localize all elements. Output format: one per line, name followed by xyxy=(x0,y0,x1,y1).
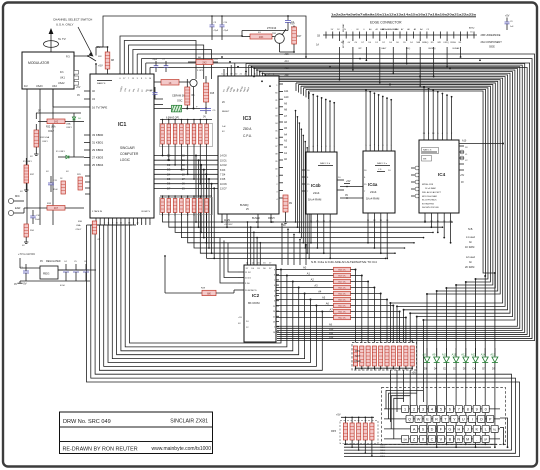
svg-text:I: I xyxy=(472,418,473,422)
svg-text:A12: A12 xyxy=(285,74,290,77)
svg-text:1B: 1B xyxy=(317,35,320,38)
svg-text:1: 1 xyxy=(100,223,101,225)
svg-text:A2: A2 xyxy=(311,278,315,282)
svg-text:26: 26 xyxy=(136,223,138,225)
A-bus verticals right of IC3 xyxy=(295,111,297,222)
svg-text:DRW No.: DRW No. xyxy=(63,419,87,425)
svg-text:13 D7: 13 D7 xyxy=(220,188,227,191)
wire bus-L7 xyxy=(117,225,299,355)
wire/node A2 xyxy=(276,281,334,283)
svg-text:R31 USA: R31 USA xyxy=(40,136,50,139)
wire bus-L1 xyxy=(91,225,516,453)
svg-text:A14: A14 xyxy=(481,353,486,357)
svg-text:25 KBD4: 25 KBD4 xyxy=(92,163,104,167)
wire/node A1 xyxy=(276,275,334,277)
svg-text:+5V: +5V xyxy=(290,22,295,26)
resistor RP2.1 xyxy=(353,346,357,366)
svg-text:11: 11 xyxy=(107,223,109,225)
capacitor C5 electrolytic xyxy=(200,108,211,110)
svg-text:9: 9 xyxy=(476,408,478,412)
key F xyxy=(437,425,444,432)
capacitor C2 xyxy=(287,16,289,21)
wire bus-R13 xyxy=(270,76,272,78)
svg-text:KBD1: KBD1 xyxy=(380,447,386,449)
IC4 RAM 4118 xyxy=(419,140,459,213)
svg-text:D6: D6 xyxy=(167,182,171,186)
svg-text:MPSH 4118: MPSH 4118 xyxy=(422,184,434,186)
svg-text:6: 6 xyxy=(449,408,451,412)
svg-text:5: 5 xyxy=(440,408,442,412)
svg-text:SRC 049: SRC 049 xyxy=(88,419,111,425)
diode D9 xyxy=(492,357,498,362)
svg-text:+5V: +5V xyxy=(98,64,103,68)
svg-text:3: 3 xyxy=(274,301,275,303)
svg-text:Z80 A: Z80 A xyxy=(243,127,252,131)
svg-text:47pF: 47pF xyxy=(224,30,229,32)
svg-text:U: U xyxy=(462,418,465,422)
svg-text:G: G xyxy=(448,428,451,432)
svg-text:2: 2 xyxy=(274,327,275,329)
resistor RP2.6 xyxy=(385,346,389,366)
extra bus junction dots xyxy=(251,66,253,68)
svg-text:LOGIC: LOGIC xyxy=(120,158,131,162)
svg-text:D8: D8 xyxy=(424,367,428,371)
svg-text:D2: D2 xyxy=(443,367,447,371)
caps C4 C5 C6 xyxy=(58,269,66,271)
diode D8 xyxy=(424,357,430,362)
svg-text:5: 5 xyxy=(274,290,275,292)
resistor RP3.2 xyxy=(351,417,353,419)
svg-text:D5: D5 xyxy=(463,367,467,371)
caps C3 C10 top xyxy=(211,16,213,25)
keyboard row/column wires xyxy=(384,408,500,410)
svg-text:+5V: +5V xyxy=(238,317,242,319)
svg-text:4: 4 xyxy=(133,223,134,225)
svg-text:N.B. IC4a & IC4b ARE AN ALTER: N.B. IC4a & IC4b ARE AN ALTERNATIVE TO I… xyxy=(311,260,377,264)
svg-text:R19 1K: R19 1K xyxy=(338,276,346,278)
svg-text:34: 34 xyxy=(128,223,130,225)
resistor pack below IC1 xyxy=(160,198,213,215)
wire bus-R21 xyxy=(308,91,310,99)
svg-text:D3: D3 xyxy=(453,367,457,371)
key X xyxy=(419,435,426,442)
resistor RP2.8 xyxy=(398,346,402,366)
svg-text:23A COMPONENT: 23A COMPONENT xyxy=(481,41,503,44)
svg-text:A7: A7 xyxy=(330,308,334,312)
svg-text:D6: D6 xyxy=(473,367,477,371)
svg-text:9 D5: 9 D5 xyxy=(220,178,226,181)
svg-text:IC2: IC2 xyxy=(252,293,260,298)
svg-text:OSC: OSC xyxy=(177,100,183,103)
key . xyxy=(473,435,480,442)
svg-text:33 KBD0: 33 KBD0 xyxy=(92,133,104,137)
svg-text:KBD2: KBD2 xyxy=(380,450,386,452)
resistor R37 xyxy=(24,165,29,183)
key SH xyxy=(402,435,409,442)
svg-text:+5V: +5V xyxy=(505,15,510,18)
svg-text:A5: A5 xyxy=(322,296,326,300)
key I xyxy=(469,415,476,422)
svg-text:R17 1K: R17 1K xyxy=(338,282,346,284)
wire data bus D2 xyxy=(154,164,218,166)
key Q xyxy=(406,415,413,422)
resistor R30 USA only xyxy=(92,221,96,234)
svg-text:F1 ONLY: F1 ONLY xyxy=(23,161,32,163)
resistor RP3.5 xyxy=(371,417,373,419)
svg-text:RAM C S b: RAM C S b xyxy=(320,162,331,165)
resistor RP1.4 xyxy=(180,120,182,125)
svg-text:N: N xyxy=(457,438,460,442)
svg-text:9 OP1: 9 OP1 xyxy=(197,70,204,72)
wire bus-R7 xyxy=(253,68,255,76)
wire address line 4 xyxy=(188,213,414,243)
svg-text:7: 7 xyxy=(274,280,275,282)
svg-text:2: 2 xyxy=(149,223,150,225)
svg-text:15 D1: 15 D1 xyxy=(220,159,227,162)
IC4b RAM 2114 xyxy=(306,152,337,214)
wire address line 3 xyxy=(181,213,423,238)
svg-text:D5: D5 xyxy=(167,177,171,181)
svg-text:RP2: RP2 xyxy=(355,350,360,353)
svg-text:F/2: F/2 xyxy=(24,85,28,88)
svg-text:+5V: +5V xyxy=(412,372,417,375)
key 7 xyxy=(455,405,462,412)
svg-text:+5V: +5V xyxy=(336,414,341,417)
key D xyxy=(428,425,435,432)
svg-text:D2: D2 xyxy=(167,163,171,167)
svg-text:MREQ: MREQ xyxy=(422,42,428,44)
wire bus-L4 xyxy=(104,225,317,366)
svg-text:30: 30 xyxy=(116,223,118,225)
svg-text:3: 3 xyxy=(422,408,424,412)
svg-text:2K RAM: 2K RAM xyxy=(465,266,474,269)
resistor R22 1K pull-up xyxy=(334,315,351,319)
wire/node A0 xyxy=(276,269,334,271)
cap C8 100uF xyxy=(153,92,158,94)
svg-text:IC1: IC1 xyxy=(118,122,126,128)
svg-text:Q: Q xyxy=(408,418,411,422)
resistor RP1.1 xyxy=(162,120,164,125)
wire address line 1 xyxy=(169,213,443,228)
svg-text:WR: WR xyxy=(423,159,427,161)
wire data bus D5 xyxy=(154,178,218,180)
resistor R8 near switch xyxy=(107,47,109,52)
key V xyxy=(437,435,444,442)
key Z xyxy=(410,435,417,442)
svg-text:A4: A4 xyxy=(318,290,322,294)
svg-text:A9: A9 xyxy=(432,353,436,357)
wire bus-L9 xyxy=(125,225,287,347)
svg-text:SHOWN CIRCLED: SHOWN CIRCLED xyxy=(422,207,440,209)
wire address line 2 xyxy=(175,213,433,233)
resistor R19 1K pull-up xyxy=(334,273,351,277)
svg-text:+5V 80V: +5V 80V xyxy=(224,224,233,226)
wire ROMCS with resistor R28 xyxy=(164,256,166,293)
IC4a RAM 2114 xyxy=(363,151,395,213)
resistor R32 xyxy=(47,119,65,124)
resistor pack RP2 not used xyxy=(352,343,417,371)
svg-text:1A: 1A xyxy=(316,44,319,47)
key N xyxy=(455,435,462,442)
key 2 xyxy=(410,405,417,412)
key P xyxy=(487,415,494,422)
svg-text:A10: A10 xyxy=(284,96,289,99)
wire bus-R2 xyxy=(145,63,147,74)
diode D6 xyxy=(473,357,479,362)
wire bus-L2 xyxy=(95,225,511,450)
key NL xyxy=(491,425,498,432)
stubs above IC3 left top pins xyxy=(223,69,225,76)
0V wire above R32 xyxy=(36,112,81,114)
svg-text:REGULATED: REGULATED xyxy=(46,260,61,263)
title block xyxy=(60,412,213,454)
key 8 xyxy=(464,405,471,412)
svg-text:0V: 0V xyxy=(77,94,80,97)
wire bus-R16 xyxy=(295,83,297,91)
svg-text:SINCLAIR: SINCLAIR xyxy=(120,146,135,150)
svg-text:0V: 0V xyxy=(461,182,464,184)
svg-text:U.S.A. ONLY: U.S.A. ONLY xyxy=(56,23,73,27)
wire data bus D3 xyxy=(154,169,218,171)
svg-text:USA2: USA2 xyxy=(58,82,65,85)
svg-text:100uF: 100uF xyxy=(147,90,153,92)
svg-text:for: for xyxy=(469,261,472,264)
svg-text:24: 24 xyxy=(273,311,275,313)
resistor RP1.6 xyxy=(193,120,195,125)
svg-text:L: L xyxy=(485,428,487,432)
resistor R34 xyxy=(24,224,28,237)
resistor R15 xyxy=(204,83,209,102)
key M xyxy=(464,435,471,442)
resistor R27 xyxy=(61,181,65,194)
IC2 ROM xyxy=(244,265,276,342)
svg-text:+5V: +5V xyxy=(460,175,465,177)
svg-text:0: 0 xyxy=(485,408,487,412)
resistor RP3.1 xyxy=(345,417,347,419)
svg-text:R26 1K: R26 1K xyxy=(338,270,346,272)
resistor RP1.3 xyxy=(174,120,176,125)
resistor RP2.5 xyxy=(379,346,383,366)
svg-text:R: R xyxy=(435,418,438,422)
wire data bus D0 xyxy=(154,155,218,157)
diode D4 xyxy=(434,357,440,362)
svg-text:8: 8 xyxy=(274,275,275,277)
svg-text:7 D4: 7 D4 xyxy=(220,174,226,177)
svg-text:2K2: 2K2 xyxy=(202,61,207,64)
svg-text:ONLY: ONLY xyxy=(76,229,82,231)
svg-text:1: 1 xyxy=(404,408,406,412)
svg-text:2: 2 xyxy=(413,408,415,412)
svg-text:9V: 9V xyxy=(40,260,43,263)
resistor R25 1K pull-up xyxy=(334,285,351,289)
svg-text:UK1: UK1 xyxy=(60,77,65,80)
svg-text:ROMC'S: ROMC'S xyxy=(141,211,150,213)
wire/node A6 xyxy=(276,305,334,307)
svg-text:A10: A10 xyxy=(329,328,334,331)
transistor TR2 xyxy=(190,79,197,86)
svg-text:A8: A8 xyxy=(423,353,427,357)
key T xyxy=(442,415,449,422)
key 4 xyxy=(428,405,435,412)
svg-text:10K: 10K xyxy=(259,35,264,39)
svg-text:A1: A1 xyxy=(307,272,311,276)
key R xyxy=(433,415,440,422)
wire bus-R11 xyxy=(264,75,266,76)
svg-text:+5V: +5V xyxy=(76,86,81,89)
resistor RP2.7 xyxy=(391,346,395,366)
svg-text:UK2: UK2 xyxy=(52,85,57,88)
resistor R9 below IC3 xyxy=(283,195,288,212)
svg-text:0V: 0V xyxy=(345,194,348,197)
svg-text:F/1: F/1 xyxy=(60,71,64,74)
wire bus-L10 xyxy=(130,225,282,343)
resistor RP2.2 xyxy=(360,346,364,366)
key L xyxy=(482,425,489,432)
resistor RP1.5 xyxy=(187,120,189,125)
svg-text:8: 8 xyxy=(467,408,469,412)
svg-text:RP3: RP3 xyxy=(331,430,336,433)
svg-text:ONLY: ONLY xyxy=(66,127,72,129)
resistor R1 xyxy=(250,34,272,39)
svg-text:0V: 0V xyxy=(14,283,17,286)
svg-text:6: 6 xyxy=(274,285,275,287)
svg-text:A15: A15 xyxy=(490,353,495,357)
svg-text:C.P.U.: C.P.U. xyxy=(243,134,252,138)
svg-text:RFSH: RFSH xyxy=(268,217,275,220)
svg-text:USA: USA xyxy=(66,123,71,126)
svg-text:RFSH: RFSH xyxy=(450,42,456,44)
svg-text:0V: 0V xyxy=(38,111,41,113)
svg-text:+5V: +5V xyxy=(214,59,218,61)
svg-text:A13: A13 xyxy=(471,353,476,357)
resistor R29 xyxy=(78,177,82,190)
svg-text:A12: A12 xyxy=(329,336,334,339)
svg-text:A13: A13 xyxy=(285,67,290,70)
svg-text:IORQ: IORQ xyxy=(444,42,450,44)
svg-text:0V: 0V xyxy=(23,281,27,285)
svg-text:L2 used: L2 used xyxy=(466,256,476,259)
key K xyxy=(473,425,480,432)
svg-text:10 D6: 10 D6 xyxy=(220,183,227,186)
key B xyxy=(446,435,453,442)
wire/node A8 xyxy=(276,317,334,319)
svg-text:D: D xyxy=(431,428,434,432)
resistor R17 1K pull-up xyxy=(334,279,351,283)
svg-text:25: 25 xyxy=(273,306,275,308)
svg-text:F1 ONLY: F1 ONLY xyxy=(56,151,65,153)
svg-text:9: 9 xyxy=(274,270,275,272)
svg-text:HALT: HALT xyxy=(382,47,388,50)
svg-text:EXTRA PINS: EXTRA PINS xyxy=(422,202,434,205)
svg-text:D4: D4 xyxy=(434,367,438,371)
svg-text:A0: A0 xyxy=(303,266,307,270)
svg-text:USA3: USA3 xyxy=(36,85,43,88)
IC1 to IC3 top fan xyxy=(120,36,242,74)
svg-text:SH: SH xyxy=(403,439,407,442)
keyboard bottom bus xyxy=(344,443,497,445)
svg-text:WR: WR xyxy=(438,42,442,44)
svg-text:12 D2: 12 D2 xyxy=(220,164,227,167)
IC3 bottom pin drops xyxy=(221,214,223,222)
resistor RP2.10 xyxy=(410,346,414,366)
svg-text:for: for xyxy=(469,241,472,244)
svg-text:K: K xyxy=(475,428,478,432)
wire bus-R6 xyxy=(251,67,253,76)
wire/node A5 xyxy=(276,299,334,301)
svg-text:2114: 2114 xyxy=(313,191,320,195)
svg-text:A14: A14 xyxy=(285,60,290,63)
key 0 xyxy=(482,405,489,412)
wire address line 5 xyxy=(194,213,405,249)
capacitor C11 xyxy=(48,182,54,184)
svg-text:23: 23 xyxy=(273,322,275,324)
wire/node A3 xyxy=(276,287,334,289)
svg-text:M: M xyxy=(466,438,469,442)
svg-text:1Kx4 RAM: 1Kx4 RAM xyxy=(366,197,380,201)
key E xyxy=(424,415,431,422)
svg-text:CERAM 36: CERAM 36 xyxy=(172,95,185,98)
svg-text:D3: D3 xyxy=(167,168,171,172)
key J xyxy=(464,425,471,432)
svg-text:R17: R17 xyxy=(297,35,302,38)
svg-text:6.5MHZ OP1: 6.5MHZ OP1 xyxy=(166,118,180,120)
svg-text:MOS 2Kx8 RAM: MOS 2Kx8 RAM xyxy=(422,195,437,198)
svg-text:R20 1K: R20 1K xyxy=(338,306,346,308)
svg-text:47pF: 47pF xyxy=(214,30,219,32)
svg-text:KBD4: KBD4 xyxy=(380,456,386,458)
svg-text:SINCLAIR ZX81: SINCLAIR ZX81 xyxy=(170,419,208,425)
key U xyxy=(460,415,467,422)
top 0V rail xyxy=(103,16,306,57)
wire bus-R5 xyxy=(248,65,250,76)
svg-text:36: 36 xyxy=(120,223,122,225)
resistor R6 xyxy=(196,60,213,65)
wire bus-R9 xyxy=(259,72,261,76)
svg-text:BUSAK: BUSAK xyxy=(453,47,460,50)
svg-text:COMPUTER: COMPUTER xyxy=(120,152,139,156)
svg-text:KBD3: KBD3 xyxy=(380,453,386,455)
IC3 Z80A CPU xyxy=(218,76,279,214)
svg-text:ATBQ: ATBQ xyxy=(469,27,475,30)
svg-text:A10: A10 xyxy=(462,140,467,143)
wire bus-R18 xyxy=(300,86,302,94)
key S xyxy=(419,425,426,432)
svg-text:SP: SP xyxy=(484,439,488,442)
svg-text:0V: 0V xyxy=(283,225,286,227)
svg-text:4: 4 xyxy=(431,408,433,412)
wire bus-R19 xyxy=(303,88,305,96)
key O xyxy=(478,415,485,422)
svg-text:20 ROMC'S: 20 ROMC'S xyxy=(245,290,257,292)
svg-text:R15: R15 xyxy=(210,93,215,95)
svg-text:27 KBD3: 27 KBD3 xyxy=(92,156,104,160)
svg-text:R24 1K: R24 1K xyxy=(338,294,346,296)
svg-text:A15: A15 xyxy=(285,53,290,56)
resistor RP3.4 xyxy=(365,417,367,419)
svg-text:23B UNDERSIDE: 23B UNDERSIDE xyxy=(481,34,501,37)
wire bus-R20 xyxy=(305,89,307,97)
junction dots xyxy=(221,56,223,58)
svg-text:RE-DRAWN BY RON REUTER: RE-DRAWN BY RON REUTER xyxy=(63,447,138,453)
resistor R21 1K pull-up xyxy=(334,309,351,313)
wire bus-R15 xyxy=(275,76,277,81)
svg-text:SIDE: SIDE xyxy=(489,46,495,49)
key G xyxy=(446,425,453,432)
svg-text:2: 2 xyxy=(125,223,126,225)
resistor R5 xyxy=(185,87,190,105)
svg-text:NMI: NMI xyxy=(417,42,421,44)
svg-text:.: . xyxy=(476,438,477,442)
